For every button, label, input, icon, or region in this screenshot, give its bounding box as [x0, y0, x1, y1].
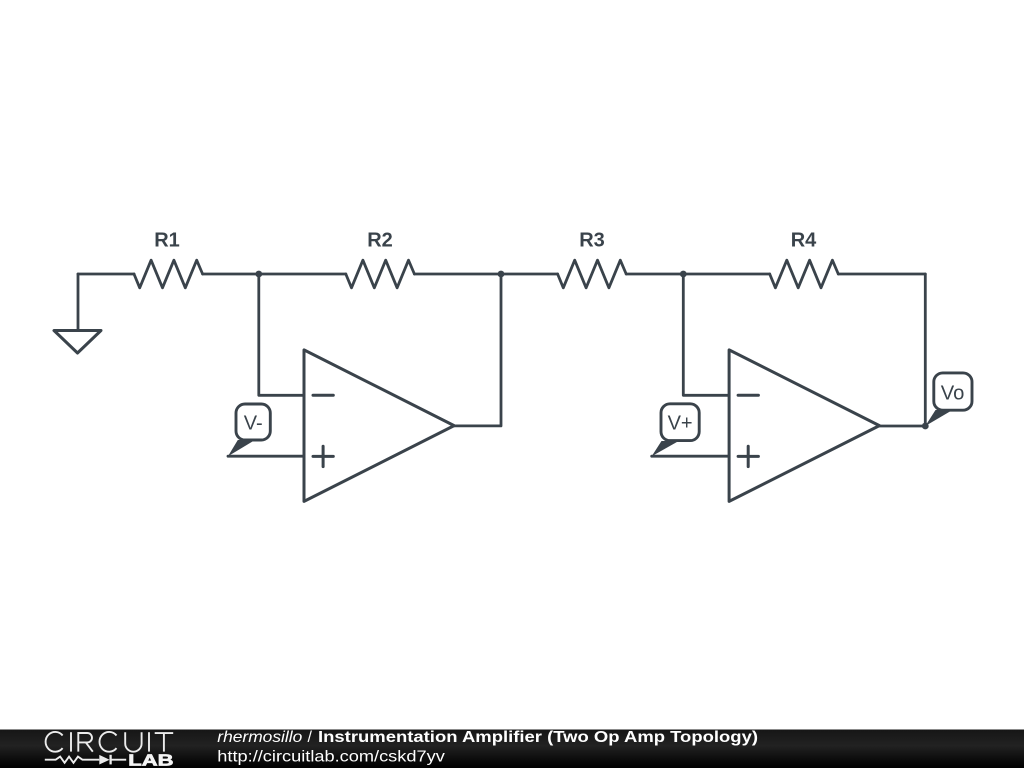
- resistor R4: [770, 230, 839, 288]
- node B junction dot: [498, 271, 505, 278]
- CircuitLab logo resistor-diode glyph: [45, 755, 126, 765]
- svg-text:V-: V-: [244, 412, 263, 434]
- svg-text:http://circuitlab.com/cskd7yv: http://circuitlab.com/cskd7yv: [217, 749, 444, 766]
- svg-text:R1: R1: [154, 230, 180, 252]
- svg-text:V+: V+: [668, 412, 693, 434]
- wire op-amp U2 output to node D: [879, 274, 925, 426]
- resistor R3: [558, 230, 627, 288]
- wire R2 to R3: [414, 273, 557, 276]
- wire R3 to R4: [626, 273, 770, 276]
- svg-text:rhermosillo: rhermosillo: [217, 729, 302, 746]
- svg-text:R2: R2: [367, 230, 393, 252]
- wire R4 to right corner: [838, 273, 925, 276]
- ground: [54, 331, 101, 354]
- CircuitLab logo LAB: [128, 752, 173, 768]
- footer title text: [217, 729, 758, 746]
- wire R1 to R2: [203, 273, 346, 276]
- svg-text:Instrumentation Amplifier (Two: Instrumentation Amplifier (Two Op Amp To…: [318, 729, 758, 746]
- svg-text:Vo: Vo: [941, 382, 965, 404]
- net flag V-: [228, 404, 270, 456]
- node C junction dot: [680, 271, 687, 278]
- svg-text:/: /: [308, 729, 313, 746]
- svg-text:LAB: LAB: [128, 752, 173, 768]
- op-amp U1: [304, 350, 454, 502]
- wire node A to op-amp U1 inverting input: [259, 274, 304, 395]
- wire ground drop: [77, 274, 80, 329]
- footer url text: [217, 749, 444, 766]
- op-amp U2: [729, 350, 879, 502]
- footer bar: [0, 730, 1024, 768]
- net flag Vo: [925, 373, 972, 426]
- CircuitLab logo CIRCUIT: [46, 732, 174, 752]
- node A junction dot: [255, 271, 262, 278]
- wire node C to op-amp U2 inverting input: [683, 274, 729, 395]
- svg-text:R3: R3: [579, 230, 605, 252]
- wire left segment to R1: [78, 273, 134, 276]
- wire op-amp U1 output feedback to node B: [454, 274, 501, 426]
- wire op-amp U2 non-inverting input: [652, 455, 729, 458]
- resistor R1: [134, 230, 203, 288]
- node D output junction dot: [922, 423, 929, 430]
- resistor R2: [346, 230, 415, 288]
- wire op-amp U1 non-inverting input: [228, 455, 304, 458]
- net flag V+: [652, 404, 700, 456]
- svg-text:R4: R4: [791, 230, 817, 252]
